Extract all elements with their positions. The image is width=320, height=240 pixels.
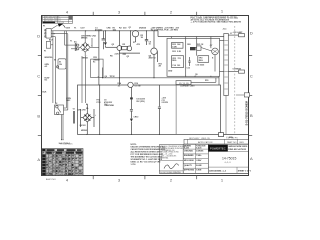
svg-text:PART NO: PART NO — [227, 141, 237, 144]
svg-text:8-4-81: 8-4-81 — [184, 147, 189, 150]
svg-text:1 75015-31 BRKT MTG A 1: 1 75015-31 BRKT MTG A 1 — [46, 161, 76, 164]
svg-text:SEC: SEC — [67, 100, 72, 102]
svg-text:R23: R23 — [172, 51, 175, 53]
svg-text:100: 100 — [177, 65, 180, 67]
svg-text:S.KIM: S.KIM — [196, 170, 201, 172]
svg-text:R21 1K: R21 1K — [197, 44, 204, 46]
svg-text:+15V: +15V — [162, 98, 167, 100]
svg-text:CR6-CR9: CR6-CR9 — [77, 110, 85, 112]
svg-text:+15V LAMP: +15V LAMP — [233, 31, 244, 34]
svg-text:2 75015-24 PCB ASSY A 2: 2 75015-24 PCB ASSY A 2 — [46, 158, 76, 161]
svg-text:2N3772: 2N3772 — [149, 58, 157, 60]
svg-text:2A 50V: 2A 50V — [80, 124, 87, 127]
svg-text:BLK: BLK — [49, 39, 54, 41]
svg-text:BLK: BLK — [43, 92, 48, 94]
svg-text:APPROVED: APPROVED — [184, 169, 195, 172]
svg-text:MFG ENGR: MFG ENGR — [184, 160, 194, 162]
svg-text:723: 723 — [178, 58, 181, 60]
svg-text:POWERTEC: POWERTEC — [210, 147, 226, 151]
svg-text:LY TBD PS: LY TBD PS — [228, 138, 238, 140]
svg-text:+- 5 PCT UNLESS NOTED. SEE TAB: +- 5 PCT UNLESS NOTED. SEE TABLE TWO ABO… — [191, 21, 242, 24]
svg-text:2.2K: 2.2K — [177, 51, 182, 53]
svg-text:2 75015-52 CONN 8 PIN 2: 2 75015-52 CONN 8 PIN 2 — [46, 168, 76, 170]
svg-text:4-5: 4-5 — [45, 65, 48, 68]
svg-text:T2: T2 — [73, 108, 75, 110]
svg-text:GRN/YEL: GRN/YEL — [44, 57, 53, 59]
svg-text:ENGINEER: ENGINEER — [184, 155, 194, 157]
svg-text:1 75015-60 CHOKE L1 A 1: 1 75015-60 CHOKE L1 A 1 — [46, 170, 76, 173]
svg-text:2.2/35V: 2.2/35V — [162, 102, 169, 104]
svg-text:MR502: MR502 — [81, 130, 87, 132]
svg-text:0.1 5W: 0.1 5W — [135, 85, 141, 87]
svg-text:P1: P1 — [43, 25, 45, 27]
svg-text:REG: REG — [172, 60, 177, 62]
svg-text:A: A — [250, 156, 253, 161]
svg-text:D: D — [37, 34, 40, 39]
svg-text:B: B — [250, 113, 253, 118]
svg-text:35V (25V): 35V (25V) — [136, 101, 145, 103]
svg-text:4700/50: 4700/50 — [95, 28, 103, 31]
svg-text:B.LEE: B.LEE — [196, 165, 202, 167]
svg-text:CR10: CR10 — [134, 117, 139, 119]
svg-text:CURRENT LIMIT: CURRENT LIMIT — [180, 85, 196, 87]
svg-text:B REVISED PER ECO: B REVISED PER ECO — [45, 20, 61, 22]
svg-text:4 75015-40 CAP 4K UF 4: 4 75015-40 CAP 4K UF 4 — [46, 164, 74, 167]
svg-text:QUALITY: QUALITY — [184, 164, 193, 167]
svg-text:TO CONTROL PCB +5V REG: TO CONTROL PCB +5V REG — [151, 29, 179, 31]
svg-text:J.RAY: J.RAY — [196, 159, 202, 162]
svg-text:8 7 6 5 4 3 2 1 QTY PC: 8 7 6 5 4 3 2 1 QTY PC — [42, 153, 68, 155]
svg-text:SIZE B FSCM 53219: SIZE B FSCM 53219 — [228, 146, 248, 148]
svg-text:TIP32: TIP32 — [110, 76, 115, 78]
svg-text:C: C — [37, 74, 40, 79]
svg-text:C13: C13 — [187, 68, 190, 70]
svg-text:1/2W: 1/2W — [172, 47, 177, 49]
svg-text:T1: T1 — [70, 41, 72, 43]
svg-text:S-01-75015 SCHEM: S-01-75015 SCHEM — [245, 100, 249, 125]
svg-text:K1: K1 — [93, 62, 95, 64]
svg-text:MR501: MR501 — [82, 57, 89, 59]
svg-text:1 75015-77 WIRE 18 GA 1: 1 75015-77 WIRE 18 GA 1 — [46, 173, 75, 176]
svg-text:T.HILL: T.HILL — [196, 155, 202, 157]
svg-text:MR501: MR501 — [81, 38, 88, 40]
svg-text:R15: R15 — [205, 80, 208, 82]
svg-text:ASSY NO: ASSY NO — [46, 178, 56, 181]
svg-text:REG: REG — [199, 60, 204, 62]
svg-text:4309 A09094 -1,-2: 4309 A09094 -1,-2 — [209, 169, 226, 172]
svg-text:8-4-81: 8-4-81 — [196, 147, 201, 150]
svg-text:Q7: Q7 — [210, 45, 213, 47]
svg-text:.33: .33 — [118, 85, 121, 87]
svg-text:PL 14-75015: PL 14-75015 — [60, 143, 73, 145]
svg-text:F1: F1 — [44, 50, 46, 52]
svg-text:C15 10/25: C15 10/25 — [196, 65, 205, 67]
svg-text:-1,-2,-3: -1,-2,-3 — [224, 162, 231, 164]
svg-text:2.2K: 2.2K — [115, 54, 120, 56]
svg-text:C: C — [250, 74, 253, 79]
svg-text:S1: S1 — [54, 60, 56, 62]
svg-text:S2: S2 — [55, 103, 57, 105]
svg-text:.XX +-.02 +-1/64: .XX +-.02 +-1/64 — [160, 154, 172, 156]
svg-text:PCB: PCB — [97, 102, 102, 104]
svg-text:1-750: 1-750 — [131, 164, 136, 166]
svg-text:R20: R20 — [187, 44, 190, 46]
svg-text:SHEET 1 OF 1: SHEET 1 OF 1 — [238, 170, 252, 172]
svg-text:APPLICATION: APPLICATION — [198, 141, 213, 144]
svg-text:Q5: Q5 — [195, 74, 198, 76]
svg-text:2N3055: 2N3055 — [139, 27, 147, 29]
svg-text:COMMON: COMMON — [233, 69, 242, 71]
svg-text:8-4-81 WH: 8-4-81 WH — [57, 22, 64, 24]
svg-text:NEXT ASSY USED ON: NEXT ASSY USED ON — [189, 137, 210, 140]
svg-text:6.3V: 6.3V — [81, 27, 86, 29]
svg-text:DWG NO 14-75015: DWG NO 14-75015 — [228, 148, 246, 151]
svg-text:USED: L1 R17 C15 CR11 Q7 VR3: USED: L1 R17 C15 CR11 Q7 VR3 — [131, 162, 161, 164]
svg-text:115V: 115V — [66, 27, 71, 29]
svg-text:14-75015: 14-75015 — [222, 157, 236, 161]
svg-text:CHECKED: CHECKED — [184, 150, 194, 152]
svg-text:1 75015-21 XFMR AY 115 1: 1 75015-21 XFMR AY 115 1 — [46, 155, 77, 158]
svg-text:Q6: Q6 — [105, 76, 108, 78]
svg-text:GND: GND — [168, 71, 173, 73]
svg-text:B: B — [37, 114, 40, 119]
svg-text:D: D — [250, 31, 253, 36]
svg-text:A: A — [37, 157, 40, 162]
svg-text:D.MOSS: D.MOSS — [196, 150, 204, 152]
svg-text:REV DESCRIPTION: REV DESCRIPTION — [45, 16, 59, 18]
svg-text:REV: REV — [240, 142, 245, 144]
